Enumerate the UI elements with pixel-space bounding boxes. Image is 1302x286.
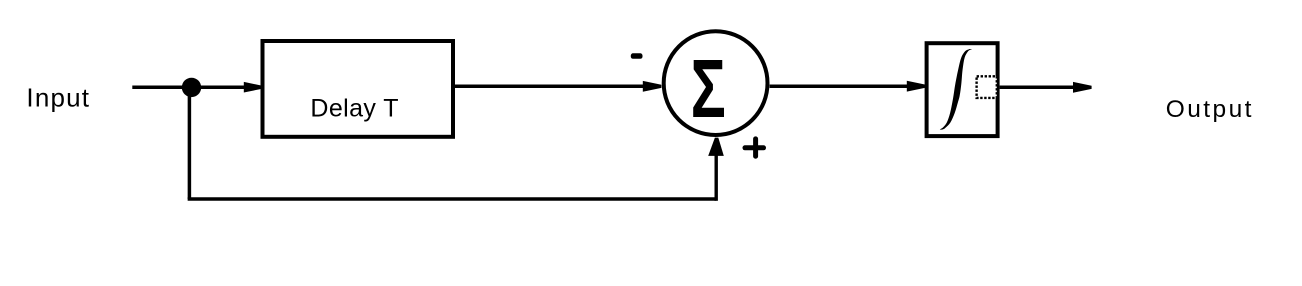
- svg-text:Input: Input: [26, 83, 90, 113]
- wire box to summer: [455, 85, 644, 89]
- wire feedback right vertical: [715, 155, 718, 201]
- wire summer to integrator: [770, 84, 908, 88]
- wire output: [1000, 86, 1074, 90]
- arrowhead into integrator: [907, 81, 926, 92]
- wire feedback bottom horizontal: [188, 197, 717, 201]
- junction dot node A: [182, 78, 201, 97]
- wire feedback left vertical: [188, 87, 192, 199]
- svg-text:Output: Output: [1166, 96, 1254, 123]
- summer circle U1: [664, 31, 768, 135]
- block Delay T: [263, 41, 454, 137]
- integral glyph: [940, 49, 972, 130]
- wire input horizontal: [132, 85, 246, 89]
- svg-text:Delay T: Delay T: [310, 95, 398, 123]
- arrowhead into Delay T box: [244, 82, 262, 93]
- block integrator: [927, 43, 998, 136]
- minus sign: [631, 53, 643, 59]
- arrowhead up into summer: [708, 138, 724, 156]
- plus sign: [745, 145, 764, 150]
- arrowhead into summer left: [643, 81, 662, 92]
- dotted square: [977, 76, 997, 98]
- arrowhead output: [1073, 82, 1092, 93]
- svg-text:Σ: Σ: [691, 43, 726, 135]
